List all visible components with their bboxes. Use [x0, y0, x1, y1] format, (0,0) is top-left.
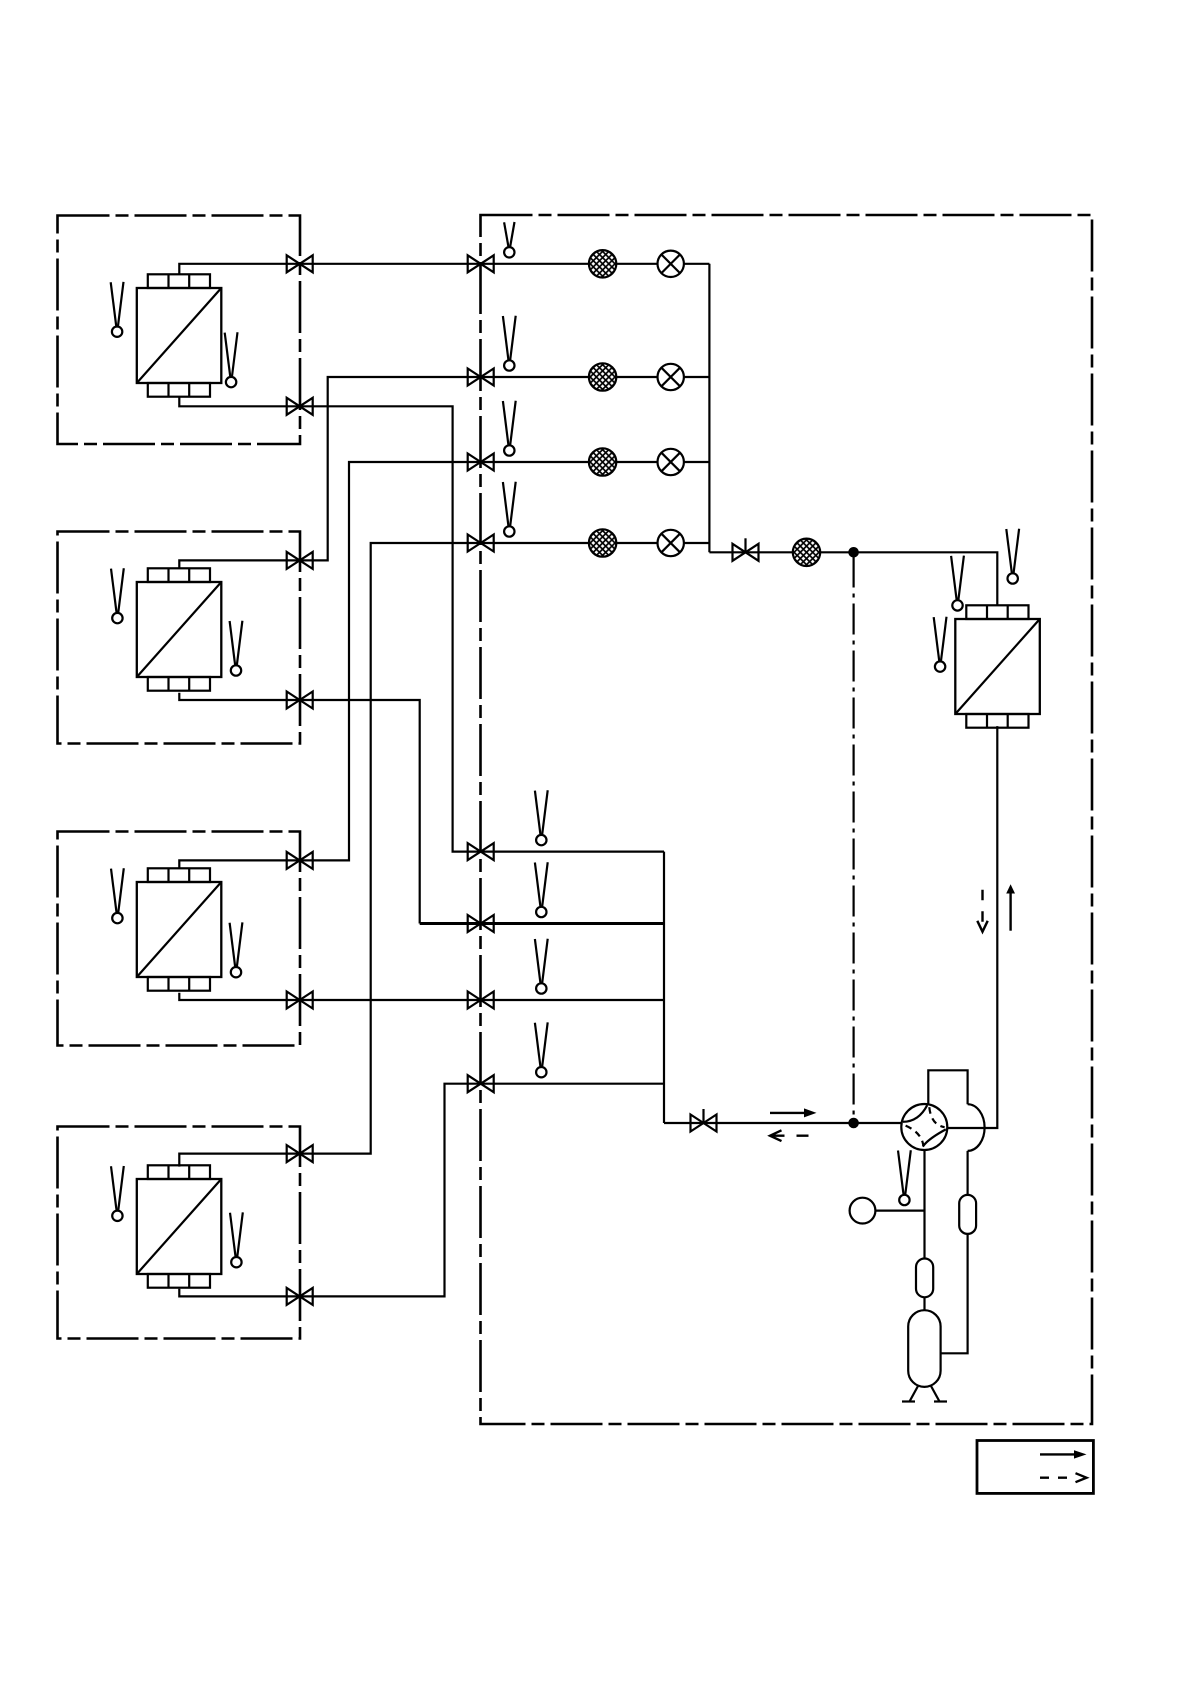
- wire gas main to 4-way valve: [664, 1122, 902, 1124]
- thermistor U2 air: [111, 568, 124, 623]
- compressor leg left: [910, 1386, 919, 1402]
- stop valve gas line: [691, 1109, 717, 1132]
- heat exchanger indoor unit 4: [137, 1165, 222, 1287]
- thermistor branch3: [503, 401, 516, 456]
- thermistor suction: [898, 1150, 911, 1205]
- thermistor U3 air: [111, 868, 124, 923]
- wire accumulator to compressor top: [923, 1297, 925, 1310]
- wire discharge hook from 4-way top: [928, 1070, 967, 1104]
- thermistor branch2: [503, 316, 516, 371]
- valve U4 liquid: [287, 1145, 313, 1162]
- LIQUID BRANCHES: [468, 222, 858, 566]
- valve gas branch1: [468, 843, 494, 860]
- valve branch4: [468, 535, 494, 552]
- stop valve liquid line: [733, 538, 759, 561]
- compressor: [908, 1310, 940, 1387]
- valve branch2: [468, 369, 494, 386]
- legend box: [977, 1441, 1093, 1494]
- muffler discharge: [959, 1195, 976, 1234]
- expansion valve branch1: [658, 251, 684, 277]
- filter branch1: [589, 250, 616, 277]
- indoor unit 1 box: [58, 216, 301, 445]
- valve U3 liquid: [287, 852, 313, 869]
- valve branch3: [468, 454, 494, 471]
- legend arrow heating dashed: [1040, 1473, 1087, 1482]
- filter branch2: [589, 363, 616, 390]
- heat exchanger indoor unit 1: [137, 274, 222, 396]
- thermistor gas branch1: [535, 790, 548, 845]
- valve gas branch2: [468, 915, 494, 932]
- wire gas trunk: [663, 852, 665, 1123]
- wire gas U1: [179, 397, 664, 851]
- wire liquid U1: HX top to branch1: [179, 264, 709, 274]
- wire liquid U3: [179, 462, 709, 869]
- valve branch1: [468, 255, 494, 272]
- wire gas U2: [179, 693, 419, 924]
- arrow liquid down dashed: [977, 890, 987, 932]
- LEGEND: [977, 1441, 1093, 1494]
- node liquid junction: [849, 548, 857, 556]
- valve U1 gas: [287, 398, 313, 415]
- thermistor U2 gas pipe: [230, 621, 243, 676]
- valve U4 gas: [287, 1288, 313, 1305]
- pressure switch: [850, 1198, 876, 1224]
- thermistor U4 gas pipe: [230, 1212, 243, 1267]
- wire liquid main to outdoor HX: [709, 552, 997, 606]
- wire liquid U2: [179, 377, 709, 569]
- valve U2 gas: [287, 692, 313, 709]
- wire discharge jump arc: [968, 1104, 985, 1151]
- indoor unit 3 box: [58, 832, 301, 1046]
- compressor leg right: [931, 1386, 940, 1402]
- thermistor branch4: [503, 482, 516, 537]
- indoor unit 4 box: [58, 1127, 301, 1339]
- thermistor U1 air: [111, 282, 124, 337]
- thermistor outdoor air top: [951, 556, 964, 611]
- valve gas branch4: [468, 1075, 494, 1092]
- thermistor outdoor pipe: [1006, 529, 1019, 584]
- expansion valve branch2: [658, 364, 684, 390]
- expansion valve branch4: [658, 530, 684, 556]
- thermistor branch1: [504, 222, 514, 258]
- filter branch3: [589, 448, 616, 475]
- valve U1 liquid: [287, 255, 313, 272]
- node gas junction: [849, 1119, 857, 1127]
- heat exchanger indoor unit 3: [137, 868, 222, 990]
- heat exchanger outdoor: [955, 605, 1040, 727]
- valve gas branch3: [468, 992, 494, 1009]
- wire equalizer dash-dot: [852, 557, 854, 1119]
- wire suction from 4-way bottom: [923, 1149, 925, 1259]
- OUTDOOR UNIT: [770, 529, 1040, 1402]
- heat exchanger indoor unit 2: [137, 568, 222, 690]
- expansion valve branch3: [658, 449, 684, 475]
- wire liquid U4: [179, 543, 709, 1167]
- BOXES: [58, 215, 1093, 1424]
- filter branch4: [589, 529, 616, 556]
- thermistor U3 gas pipe: [230, 922, 243, 977]
- wire liquid trunk: [708, 264, 710, 553]
- valve U3 gas: [287, 992, 313, 1009]
- outdoor unit box: [481, 215, 1093, 1424]
- wire pressure switch stub: [875, 1209, 924, 1211]
- thermistor gas branch3: [535, 939, 548, 994]
- arrow gas up solid: [1006, 884, 1015, 930]
- thermistor U4 air: [111, 1166, 124, 1221]
- wire gas U4: [179, 1084, 664, 1297]
- thermistor gas branch2: [535, 862, 548, 917]
- wire muffler to compressor: [941, 1234, 968, 1353]
- wire 4-way right port to outdoor HX bottom: [947, 726, 997, 1128]
- indoor unit 2 box: [58, 532, 301, 744]
- legend arrow cooling: [1040, 1450, 1087, 1458]
- GAS BRANCHES: [468, 790, 858, 1131]
- thermistor gas branch4: [535, 1022, 548, 1077]
- filter liquid line: [793, 539, 820, 566]
- INDOOR UNITS: [111, 255, 313, 1305]
- thermistor outdoor coil: [934, 617, 947, 672]
- four-way valve: [901, 1104, 947, 1150]
- wire discharge to muffler: [966, 1151, 968, 1195]
- wire gas U3: [179, 993, 664, 1000]
- arrow cooling flow right: [770, 1108, 817, 1117]
- arrow heating flow left dashed: [770, 1130, 814, 1141]
- thermistor U1 gas pipe: [225, 332, 238, 387]
- accumulator suction: [916, 1259, 933, 1298]
- valve U2 liquid: [287, 552, 313, 569]
